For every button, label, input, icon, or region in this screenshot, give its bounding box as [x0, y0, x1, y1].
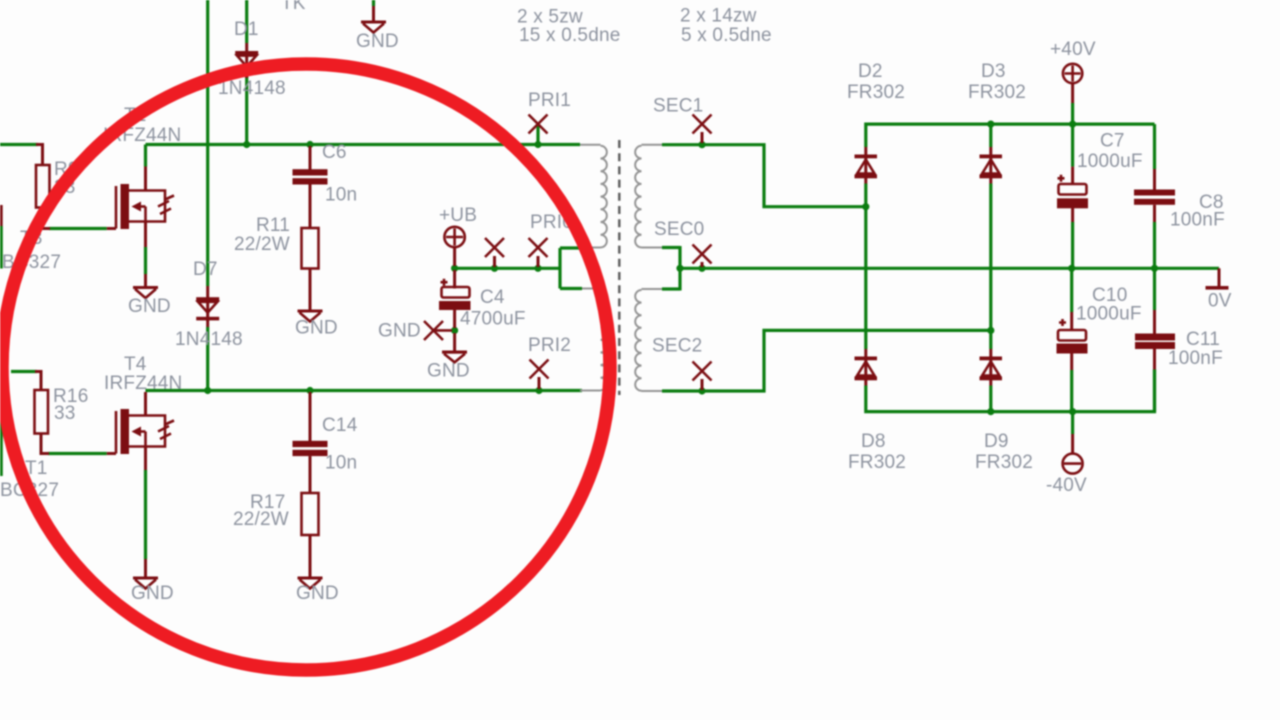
ground GND top near TK	[361, 6, 386, 33]
wire C7 bottom to 0V	[1071, 222, 1074, 268]
wire top rail PRI1 net	[146, 143, 581, 146]
pin cross X SEC2	[693, 362, 712, 391]
wire C8 top	[1153, 124, 1156, 169]
diode D8 (FR302)	[855, 349, 878, 386]
pin cross X SEC0	[693, 245, 712, 268]
wire PRI1 X pin	[536, 126, 539, 145]
transformer TR core dashed line	[618, 140, 621, 395]
svg-text:15 x 0.5dne: 15 x 0.5dne	[519, 25, 621, 46]
red circle annotation	[2, 64, 610, 670]
wire net to R9 top left	[0, 143, 38, 146]
wire T4 source	[144, 470, 147, 559]
node SEC0 pin junction	[698, 265, 705, 272]
ground GND under R17	[298, 577, 323, 589]
supply +40V	[1063, 64, 1082, 103]
node SEC1 bridge junction	[862, 203, 869, 210]
svg-text:0V: 0V	[1208, 291, 1232, 312]
wire C10 top	[1070, 268, 1073, 312]
diode D3 (FR302)	[980, 147, 1003, 184]
node +UB junction	[451, 265, 458, 272]
wire long vertical at x=207 upper	[206, 0, 209, 286]
wire D2 to D8 vertical	[864, 184, 867, 350]
wire SEC0 vertical	[678, 246, 681, 291]
node D7 bottom rail junction	[204, 387, 211, 394]
wire TK pin stub top	[372, 0, 375, 6]
node SEC0 tee junction	[676, 265, 683, 272]
svg-text:33: 33	[54, 403, 76, 424]
node D1 rail junction	[243, 141, 250, 148]
svg-text:22/2W: 22/2W	[233, 509, 289, 530]
node D3 top rail junction	[987, 121, 994, 128]
ground GND under C4	[442, 351, 467, 363]
wire C8 bottom	[1153, 222, 1156, 268]
svg-text:10n: 10n	[325, 453, 357, 474]
wire T2 drain to rail	[144, 145, 147, 167]
svg-text:GND: GND	[131, 583, 174, 604]
svg-text:D8: D8	[861, 431, 886, 452]
wire long vertical at x=207 lower (below D7)	[206, 327, 209, 391]
svg-text:PRI1: PRI1	[528, 90, 571, 111]
svg-text:IRFZ44N: IRFZ44N	[104, 373, 182, 394]
node C6 rail junction	[306, 141, 313, 148]
svg-text:1000uF: 1000uF	[1076, 304, 1142, 325]
svg-text:5 x 0.5dne: 5 x 0.5dne	[681, 25, 772, 46]
svg-text:1N4148: 1N4148	[175, 329, 243, 350]
svg-text:D1: D1	[234, 19, 259, 40]
node SEC1 pin junction	[698, 141, 705, 148]
wire D2 cathode up	[989, 124, 992, 147]
ground GND under T2	[133, 274, 158, 298]
svg-text:GND: GND	[356, 31, 399, 52]
wire T4 gate net	[48, 452, 107, 455]
svg-text:C6: C6	[322, 142, 347, 163]
svg-text:D3: D3	[981, 61, 1006, 82]
node C4 gnd junction	[451, 327, 458, 334]
wire -40V supply drop	[1071, 412, 1074, 434]
wire PRI center tap Z	[560, 246, 582, 249]
wire PRI2 bottom rail	[146, 389, 583, 392]
pin cross X PRI0 pin2	[529, 238, 548, 267]
node -40V rail junction	[1069, 408, 1076, 415]
diode D2 (FR302)	[855, 147, 878, 184]
svg-text:D2: D2	[858, 61, 883, 82]
transformer coil PRI1	[580, 145, 607, 248]
wire C11 bottom	[1153, 370, 1156, 412]
pin cross X PRI0 pin1	[485, 238, 504, 267]
svg-text:SEC0: SEC0	[654, 219, 704, 240]
ground GND under R11	[298, 310, 323, 322]
wire D1 top vertical	[245, 0, 248, 43]
svg-text:GND: GND	[296, 583, 339, 604]
svg-text:2 x 14zw: 2 x 14zw	[680, 6, 757, 27]
ground GND under T4	[133, 559, 158, 589]
svg-text:C14: C14	[322, 415, 358, 436]
node PRI0 pin2 junction	[534, 265, 541, 272]
transformer coil PRI2	[580, 289, 607, 391]
wire R16 top net	[11, 370, 37, 373]
svg-text:-40V: -40V	[1046, 475, 1087, 496]
svg-text:R11: R11	[256, 215, 290, 236]
capacitor C14	[293, 392, 328, 493]
wire +40V top rail	[866, 124, 1155, 147]
svg-text:FR302: FR302	[975, 452, 1033, 473]
svg-text:FR302: FR302	[848, 452, 906, 473]
wire SEC1 net to bridge	[662, 145, 863, 207]
wire left edge T1 stub	[0, 416, 3, 476]
pin cross X GND near C4	[424, 321, 452, 340]
wire left edge T3 stub	[0, 226, 3, 269]
wire SEC2 net to bridge	[662, 330, 991, 391]
capacitor C10 (1000uF polarized)	[1057, 312, 1088, 370]
svg-text:PRI2: PRI2	[528, 335, 571, 356]
transistor T4 (IRFZ44N)	[107, 392, 174, 470]
diode D1 (1N4148)	[235, 43, 258, 78]
capacitor C7 (1000uF polarized)	[1057, 167, 1088, 222]
node PRI1 pin junction	[534, 141, 541, 148]
node PRI0 pin1 junction	[491, 265, 498, 272]
svg-text:C7: C7	[1100, 131, 1125, 152]
wire +UB row net	[455, 267, 560, 270]
diode D7 (1N4148)	[196, 286, 219, 327]
pin cross X PRI2	[530, 360, 549, 390]
wire C10 bottom	[1070, 370, 1073, 412]
svg-text:10n: 10n	[325, 185, 357, 206]
wire -40V bottom rail	[866, 370, 1155, 412]
wire 0V rail SEC0 net	[680, 267, 1219, 270]
wire C7 top	[1071, 124, 1074, 167]
wire +40V supply drop	[1071, 103, 1074, 124]
svg-text:4700uF: 4700uF	[460, 309, 526, 330]
wire D1 bottom to rail	[245, 69, 248, 145]
svg-text:100nF: 100nF	[1170, 210, 1225, 231]
node C7 0V junction	[1068, 265, 1075, 272]
svg-text:D7: D7	[193, 259, 218, 280]
svg-text:GND: GND	[427, 361, 470, 382]
svg-text:FR302: FR302	[968, 82, 1026, 103]
node D9 bottom rail junction	[987, 408, 994, 415]
diode D9 (FR302)	[980, 349, 1003, 386]
node PRI2 pin junction	[535, 387, 542, 394]
svg-text:D9: D9	[984, 431, 1009, 452]
node +40V rail junction	[1069, 121, 1076, 128]
svg-text:SEC2: SEC2	[652, 336, 702, 357]
svg-text:TK: TK	[281, 0, 306, 14]
supply -40V	[1063, 434, 1083, 474]
svg-text:+40V: +40V	[1050, 39, 1096, 60]
node SEC2 pin junction	[698, 387, 705, 394]
svg-text:C11: C11	[1186, 329, 1220, 350]
capacitor C4 (4700uF polarized)	[439, 270, 471, 351]
svg-text:SEC1: SEC1	[653, 96, 703, 117]
svg-text:T4: T4	[124, 354, 147, 375]
capacitor C6	[293, 146, 328, 228]
svg-text:+UB: +UB	[439, 205, 477, 226]
node SEC2 bridge junction	[987, 327, 994, 334]
wire T2 gate net	[49, 227, 107, 230]
supply +UB	[444, 227, 464, 266]
node C14 rail junction	[306, 387, 313, 394]
resistor R17	[302, 493, 319, 577]
svg-text:FR302: FR302	[847, 82, 905, 103]
resistor R16	[35, 372, 50, 454]
pin cross X SEC1	[693, 115, 712, 144]
resistor R11	[302, 228, 319, 310]
svg-text:100nF: 100nF	[1168, 348, 1223, 369]
pin cross X PRI1	[529, 115, 548, 134]
supply 0V	[1206, 268, 1229, 289]
svg-text:GND: GND	[378, 321, 421, 342]
transformer coil SEC1	[635, 145, 662, 248]
wire C11 top	[1153, 268, 1156, 310]
wire D3 to D9 vertical	[989, 184, 992, 350]
wire SEC0 stub upper	[662, 246, 680, 249]
transformer coil SEC2	[635, 289, 662, 391]
wire D9 bottom	[989, 386, 992, 412]
svg-text:C4: C4	[480, 287, 505, 308]
capacitor C8 (100nF)	[1134, 169, 1175, 222]
svg-text:BC327: BC327	[2, 252, 61, 273]
transistor T3 (BC327, clipped at left edge)	[0, 205, 3, 226]
wire SEC0 stub lower	[662, 287, 680, 290]
svg-text:22/2W: 22/2W	[234, 234, 290, 255]
transistor T2 (IRFZ44N)	[107, 167, 174, 248]
wire T2 source	[144, 247, 147, 274]
node C8 0V junction	[1151, 265, 1158, 272]
resistor R9	[36, 145, 50, 229]
svg-text:GND: GND	[128, 296, 171, 317]
svg-text:1000uF: 1000uF	[1077, 151, 1143, 172]
svg-text:1N4148: 1N4148	[218, 78, 286, 99]
capacitor C11 (100nF)	[1135, 310, 1175, 370]
svg-text:GND: GND	[295, 318, 338, 339]
